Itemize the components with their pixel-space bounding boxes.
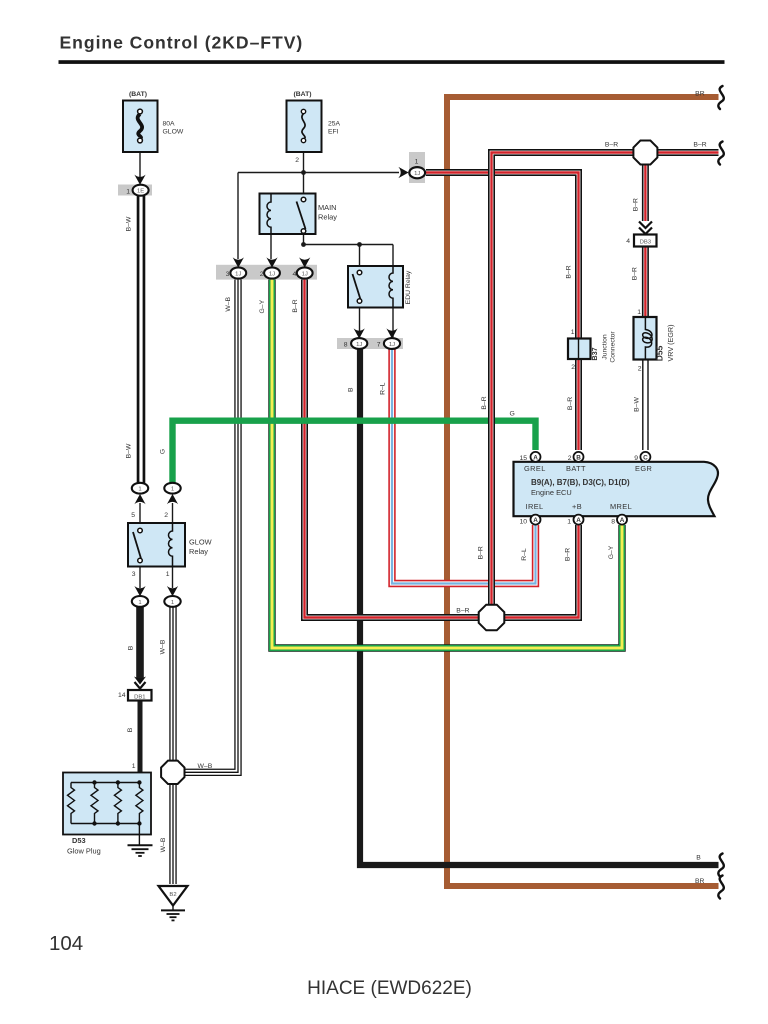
svg-text:B–R: B–R	[693, 142, 706, 149]
svg-text:G–Y: G–Y	[608, 545, 615, 559]
svg-text:2: 2	[568, 455, 572, 462]
svg-text:2: 2	[638, 366, 642, 373]
svg-text:B–R: B–R	[633, 198, 640, 211]
break BR bottom	[718, 876, 724, 899]
svg-text:A: A	[576, 517, 581, 524]
svg-text:B–R: B–R	[456, 608, 469, 615]
ECU pin 10 IREL (A)	[519, 515, 540, 526]
octagon node top right	[633, 141, 657, 165]
svg-text:3: 3	[226, 271, 230, 278]
svg-text:8: 8	[344, 342, 348, 349]
relay GLOW	[128, 512, 212, 578]
svg-text:B: B	[696, 855, 701, 862]
svg-text:Glow Plug: Glow Plug	[67, 847, 101, 856]
svg-text:104: 104	[49, 932, 83, 955]
svg-text:W–B: W–B	[198, 763, 213, 770]
svg-text:B: B	[128, 645, 135, 650]
svg-text:B–R: B–R	[292, 299, 299, 312]
svg-text:2: 2	[260, 271, 264, 278]
svg-text:2: 2	[164, 512, 168, 519]
junction connector B37	[568, 329, 617, 371]
fuse F1 80A GLOW	[123, 91, 184, 152]
svg-text:W–B: W–B	[225, 296, 232, 311]
wire B thick glow relay pin3 to DB1 to glow plug	[136, 607, 144, 783]
wire G-Y from 2 1J down, right, up to MREL	[272, 277, 622, 648]
relay MAIN	[260, 194, 338, 235]
wire B-W glow fuse feed down to oval	[137, 196, 146, 483]
svg-text:EFI: EFI	[328, 129, 339, 136]
break BR top	[718, 86, 724, 109]
wire B-R from 1 1J right then down to BATT (through B37)	[426, 173, 579, 451]
svg-text:Relay: Relay	[318, 213, 337, 222]
svg-text:4: 4	[626, 238, 630, 245]
svg-text:R–L: R–L	[521, 548, 528, 561]
wire oval to GLOW relay pin2	[172, 503, 174, 530]
svg-text:2: 2	[571, 364, 575, 371]
svg-text:9: 9	[634, 455, 638, 462]
wire fuse 25A pin2 down to junction	[303, 152, 305, 173]
svg-text:B2: B2	[169, 892, 176, 898]
wire BR brown battery feed (top to bottom loop)	[447, 97, 719, 886]
svg-text:EGR: EGR	[635, 464, 652, 473]
svg-text:1: 1	[171, 600, 174, 606]
svg-text:15: 15	[519, 455, 527, 462]
svg-text:C: C	[643, 454, 648, 461]
wire branch down to 3 1J	[237, 173, 239, 260]
svg-text:GLOW: GLOW	[189, 538, 212, 547]
wire junction horizontal to 1J arrow	[238, 172, 399, 174]
svg-text:8: 8	[611, 519, 615, 526]
svg-text:(BAT): (BAT)	[294, 91, 312, 98]
svg-text:D53: D53	[72, 836, 86, 845]
connector DB3	[626, 222, 656, 247]
wire down to EDU switch	[359, 245, 361, 272]
svg-text:2: 2	[295, 157, 299, 164]
svg-text:4: 4	[293, 271, 297, 278]
fuse F2 25A EFI	[287, 91, 341, 164]
wire B-R from 4 1J down, right along 617, up to +B	[305, 277, 579, 618]
wire G green GLOW relay coil to GREL	[173, 421, 536, 484]
ground at glow plug	[128, 824, 153, 857]
connector ovals above GLOW relay	[132, 483, 181, 504]
svg-text:B: B	[576, 454, 581, 461]
wire B-R octagon to DB3 to D55	[642, 164, 649, 316]
svg-text:14: 14	[118, 692, 126, 699]
svg-text:(BAT): (BAT)	[129, 91, 147, 98]
svg-text:B–R: B–R	[477, 546, 484, 559]
svg-text:A: A	[533, 454, 538, 461]
svg-text:25A: 25A	[328, 121, 341, 128]
svg-text:B–R: B–R	[565, 548, 572, 561]
svg-text:1: 1	[138, 600, 141, 606]
svg-text:1: 1	[171, 487, 174, 493]
svg-text:Junction: Junction	[602, 334, 609, 360]
svg-text:7: 7	[377, 342, 381, 349]
svg-text:BR: BR	[695, 91, 705, 98]
break B-R top	[718, 142, 724, 165]
svg-text:1: 1	[132, 763, 136, 770]
wire oval to GLOW relay pin5	[139, 503, 141, 529]
svg-text:R–L: R–L	[380, 382, 387, 395]
relay EDU	[348, 266, 412, 308]
svg-text:+B: +B	[572, 502, 582, 511]
wire W-B glow relay pin1 down through octagon to B2 ground	[169, 607, 176, 884]
svg-text:B–R: B–R	[566, 265, 573, 278]
svg-text:VRV (EGR): VRV (EGR)	[666, 324, 675, 361]
connector ovals below GLOW relay	[132, 586, 181, 607]
svg-text:DB1: DB1	[134, 694, 145, 700]
svg-text:B–R: B–R	[481, 396, 488, 409]
svg-text:1: 1	[415, 158, 419, 165]
svg-text:G: G	[510, 411, 515, 418]
svg-text:Engine ECU: Engine ECU	[531, 488, 572, 497]
ECU pin 1 +B (A)	[567, 515, 583, 526]
wire B-W from D55 pin2 down to EGR	[642, 358, 649, 450]
svg-text:MAIN: MAIN	[318, 203, 336, 212]
wire MAIN relay output horizontal	[304, 244, 394, 246]
svg-text:1J: 1J	[356, 342, 362, 348]
svg-text:DB3: DB3	[640, 240, 652, 246]
svg-text:B9(A), B7(B), D3(C), D1(D): B9(A), B7(B), D3(C), D1(D)	[531, 478, 630, 487]
svg-text:Engine Control (2KD–FTV): Engine Control (2KD–FTV)	[60, 33, 304, 53]
svg-text:A: A	[533, 517, 538, 524]
svg-text:1: 1	[567, 519, 571, 526]
svg-text:EDU Relay: EDU Relay	[405, 270, 412, 304]
svg-text:D55: D55	[655, 345, 665, 361]
node EDU switch branch	[357, 242, 362, 247]
svg-text:IREL: IREL	[526, 502, 544, 511]
svg-text:1J: 1J	[302, 271, 308, 277]
svg-text:80A: 80A	[163, 121, 176, 128]
wire W-B from 3 1J down to octagon near glow plug	[183, 277, 238, 772]
octagon node W-B junction	[161, 761, 184, 784]
svg-text:1: 1	[166, 571, 170, 578]
node fuse25/MAIN junction	[301, 170, 306, 175]
connector 1E row	[118, 175, 152, 196]
svg-text:B–R: B–R	[567, 397, 574, 410]
svg-text:B–W: B–W	[126, 443, 133, 458]
svg-text:1J: 1J	[235, 271, 241, 277]
svg-text:3: 3	[132, 571, 136, 578]
svg-text:B: B	[127, 727, 134, 732]
connector row 3/2/4 1J	[216, 257, 317, 279]
wire MAIN switch bottom to junction	[303, 233, 305, 245]
svg-text:G: G	[160, 449, 167, 454]
svg-text:B–R: B–R	[605, 142, 618, 149]
svg-text:Relay: Relay	[189, 547, 208, 556]
svg-text:5: 5	[131, 512, 135, 519]
wire B-R riser from octagon 617 up and right to break (top B-R)	[492, 153, 719, 618]
svg-text:1J: 1J	[389, 342, 395, 348]
octagon node mid (B-R junction)	[479, 605, 505, 631]
svg-text:1: 1	[138, 487, 141, 493]
svg-text:BATT: BATT	[566, 464, 586, 473]
svg-text:1J: 1J	[414, 171, 420, 177]
connector row 8/7 1J	[337, 328, 403, 349]
svg-text:Connector: Connector	[610, 331, 617, 363]
svg-text:GREL: GREL	[524, 464, 546, 473]
svg-text:1: 1	[637, 309, 641, 316]
svg-text:B37: B37	[590, 347, 599, 360]
node MAIN output junction	[301, 242, 306, 247]
wire EDU switch bottom to 8 1J	[359, 302, 361, 337]
wire GLOW relay pin3 to oval	[139, 562, 141, 588]
ECU pin 9 EGR (C)	[634, 452, 650, 462]
wire MAIN coil bottom to 2 1J	[270, 233, 272, 259]
svg-text:1: 1	[126, 189, 130, 196]
break B bottom	[718, 854, 724, 877]
wire junction down to MAIN relay switch	[303, 173, 305, 200]
connector 1 1J (to B-R feed)	[398, 152, 425, 183]
svg-text:1: 1	[571, 329, 575, 336]
connector DB1	[118, 677, 152, 701]
svg-text:MREL: MREL	[610, 502, 632, 511]
wire EDU coil bottom to 7 1J	[392, 302, 394, 337]
wire R-L from 7 1J down, right, up to IREL	[392, 349, 536, 584]
wire down to EDU coil	[392, 245, 394, 273]
wire B black EDU ground: 8 1J down, right to break	[360, 349, 719, 865]
svg-text:W–B: W–B	[160, 639, 167, 654]
svg-text:B–R: B–R	[631, 267, 638, 280]
svg-text:1J: 1J	[269, 271, 275, 277]
svg-text:BR: BR	[695, 878, 705, 885]
svg-text:G–Y: G–Y	[259, 299, 266, 313]
svg-text:B: B	[347, 387, 354, 392]
wire fuse 80A to 1E connector	[139, 152, 141, 177]
Engine ECU box	[514, 462, 718, 516]
svg-text:GLOW: GLOW	[163, 129, 184, 136]
svg-text:B–W: B–W	[126, 216, 133, 231]
svg-text:HIACE (EWD622E): HIACE (EWD622E)	[307, 978, 472, 999]
svg-text:B–W: B–W	[634, 397, 641, 412]
svg-text:10: 10	[519, 519, 527, 526]
wire GLOW relay pin1 to oval	[172, 562, 174, 588]
title rule	[59, 60, 725, 64]
svg-text:1E: 1E	[137, 189, 144, 195]
glow plug D53	[63, 763, 151, 856]
svg-text:W–B: W–B	[160, 837, 167, 852]
ECU pin 2 BATT (B)	[568, 452, 584, 462]
VRV D55	[634, 309, 676, 373]
ground B2	[159, 886, 188, 920]
ECU pin 8 MREL (A)	[611, 515, 627, 526]
ECU pin 15 GREL (A)	[519, 452, 540, 462]
svg-text:A: A	[620, 517, 625, 524]
